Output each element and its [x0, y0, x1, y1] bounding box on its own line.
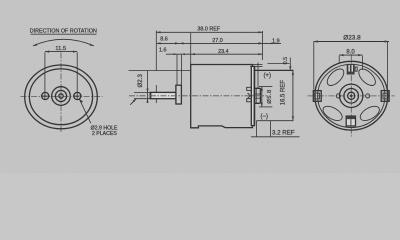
terminal tab side view: [255, 88, 261, 103]
dim row1 38.0 REF line: [156, 31, 262, 33]
rotation direction arc: [33, 39, 94, 46]
front bearing boss inner circle: [55, 90, 66, 101]
dia 2.3 ext top: [134, 91, 151, 93]
rear bottom terminal divider: [350, 119, 352, 126]
terminal tab inner line top: [255, 93, 261, 95]
extension line left hole: [44, 52, 46, 100]
dimension 11.5 line: [45, 51, 77, 53]
side view horizontal centerline: [129, 95, 268, 97]
rear bearing boss ring 3: [348, 92, 355, 99]
body top extension stub: [253, 63, 263, 65]
dia 23.8 dim line: [314, 41, 390, 43]
shaft tip dark edge: [150, 92, 152, 98]
rear bearing boss ring 2: [344, 89, 359, 104]
mounting hole right: [74, 92, 81, 99]
terminal dim top line: [259, 85, 272, 87]
rear right tab inner: [383, 93, 387, 99]
dim 16.5 vertical line: [292, 70, 294, 120]
dia 2.3 shelf line: [129, 70, 191, 72]
rear rim circle: [318, 64, 385, 127]
left front view centerline horizontal: [21, 96, 103, 98]
motor outer circle front view: [25, 65, 98, 129]
terminal dim vertical: [261, 86, 263, 107]
endbell cap dark right edge: [253, 66, 255, 125]
terminal bracket lower tab: [247, 99, 252, 102]
shaft circle front view: [59, 94, 63, 98]
terminal tab inner line bottom: [255, 97, 261, 99]
rear view centerline horizontal: [308, 95, 395, 97]
front bearing boss outer circle: [52, 87, 71, 106]
rear view centerline vertical: [350, 54, 352, 136]
extension line shaft tip lower: [155, 85, 157, 103]
dia 2.3 diagonal leader: [130, 99, 136, 105]
rear small hole right: [366, 94, 370, 98]
dia 23.8 ext left: [313, 42, 315, 90]
vent slot upper right: [356, 66, 378, 88]
cap top extension stub: [250, 65, 263, 67]
endbell cap band: [251, 66, 254, 125]
dia 2.3 ext bottom: [134, 98, 151, 100]
left front view centerline vertical: [60, 53, 62, 134]
rear right tab outer: [381, 91, 389, 102]
terminal bracket upper tab: [247, 87, 252, 90]
extension line shaft tip upper: [155, 31, 157, 71]
rear left tab outer: [313, 91, 321, 102]
front bearing boss side view: [176, 85, 182, 104]
plus terminal line: [255, 69, 294, 71]
terminal tip extension vertical: [257, 63, 259, 89]
rear outer circle: [315, 61, 388, 130]
mounting hole left: [42, 92, 49, 99]
rear top terminal side lug: [355, 67, 357, 71]
extension line terminal end: [262, 31, 264, 60]
bottom ext line right: [270, 121, 272, 137]
rear bottom terminal box: [346, 116, 355, 126]
terminal tab inner vertical: [255, 88, 257, 103]
scan noise overlay: [0, 0, 1, 1]
rear bearing boss ring 1: [340, 84, 363, 107]
motor rim circle front view: [29, 69, 92, 125]
dia 23.8 ext right: [386, 42, 388, 90]
motor shaft: [150, 92, 176, 98]
dim row3 line: [166, 53, 263, 55]
vent slot lower left: [321, 103, 345, 123]
extension line boss left: [176, 55, 178, 85]
rear top terminal slot right: [352, 65, 354, 72]
rear top terminal dark box: [347, 64, 355, 75]
dim 8.0 line: [339, 54, 362, 56]
vent slot upper left: [324, 66, 346, 88]
dia 2.3 dim vertical: [147, 71, 149, 103]
extension line body face: [190, 33, 192, 64]
dim 8.0 ext right: [362, 56, 364, 70]
extension line right hole: [76, 52, 78, 100]
endbell cap left edge: [250, 66, 252, 125]
extension line boss right: [181, 55, 183, 85]
rear small hole left: [336, 94, 340, 98]
terminal bracket arrow: [248, 93, 251, 98]
upper reference line right: [268, 62, 290, 64]
minus terminal line: [256, 120, 293, 122]
bottom ref line: [251, 136, 300, 138]
leader line to mounting hole: [79, 99, 91, 123]
bottom ext line left: [256, 121, 258, 137]
rear center dot: [350, 95, 353, 98]
mounting hole right tick: [73, 95, 82, 97]
motor body can: [191, 65, 253, 128]
rear top terminal slot left: [348, 65, 350, 72]
dim 8.0 ext left: [338, 56, 340, 64]
vent slot lower right: [358, 103, 382, 123]
mounting hole left tick: [41, 95, 50, 97]
dim 0.5 vertical: [289, 58, 291, 71]
terminal dim bottom line: [259, 106, 272, 108]
rear left tab inner: [315, 93, 319, 99]
rear bottom terminal top band: [346, 116, 355, 119]
dim row2 line: [156, 42, 281, 44]
